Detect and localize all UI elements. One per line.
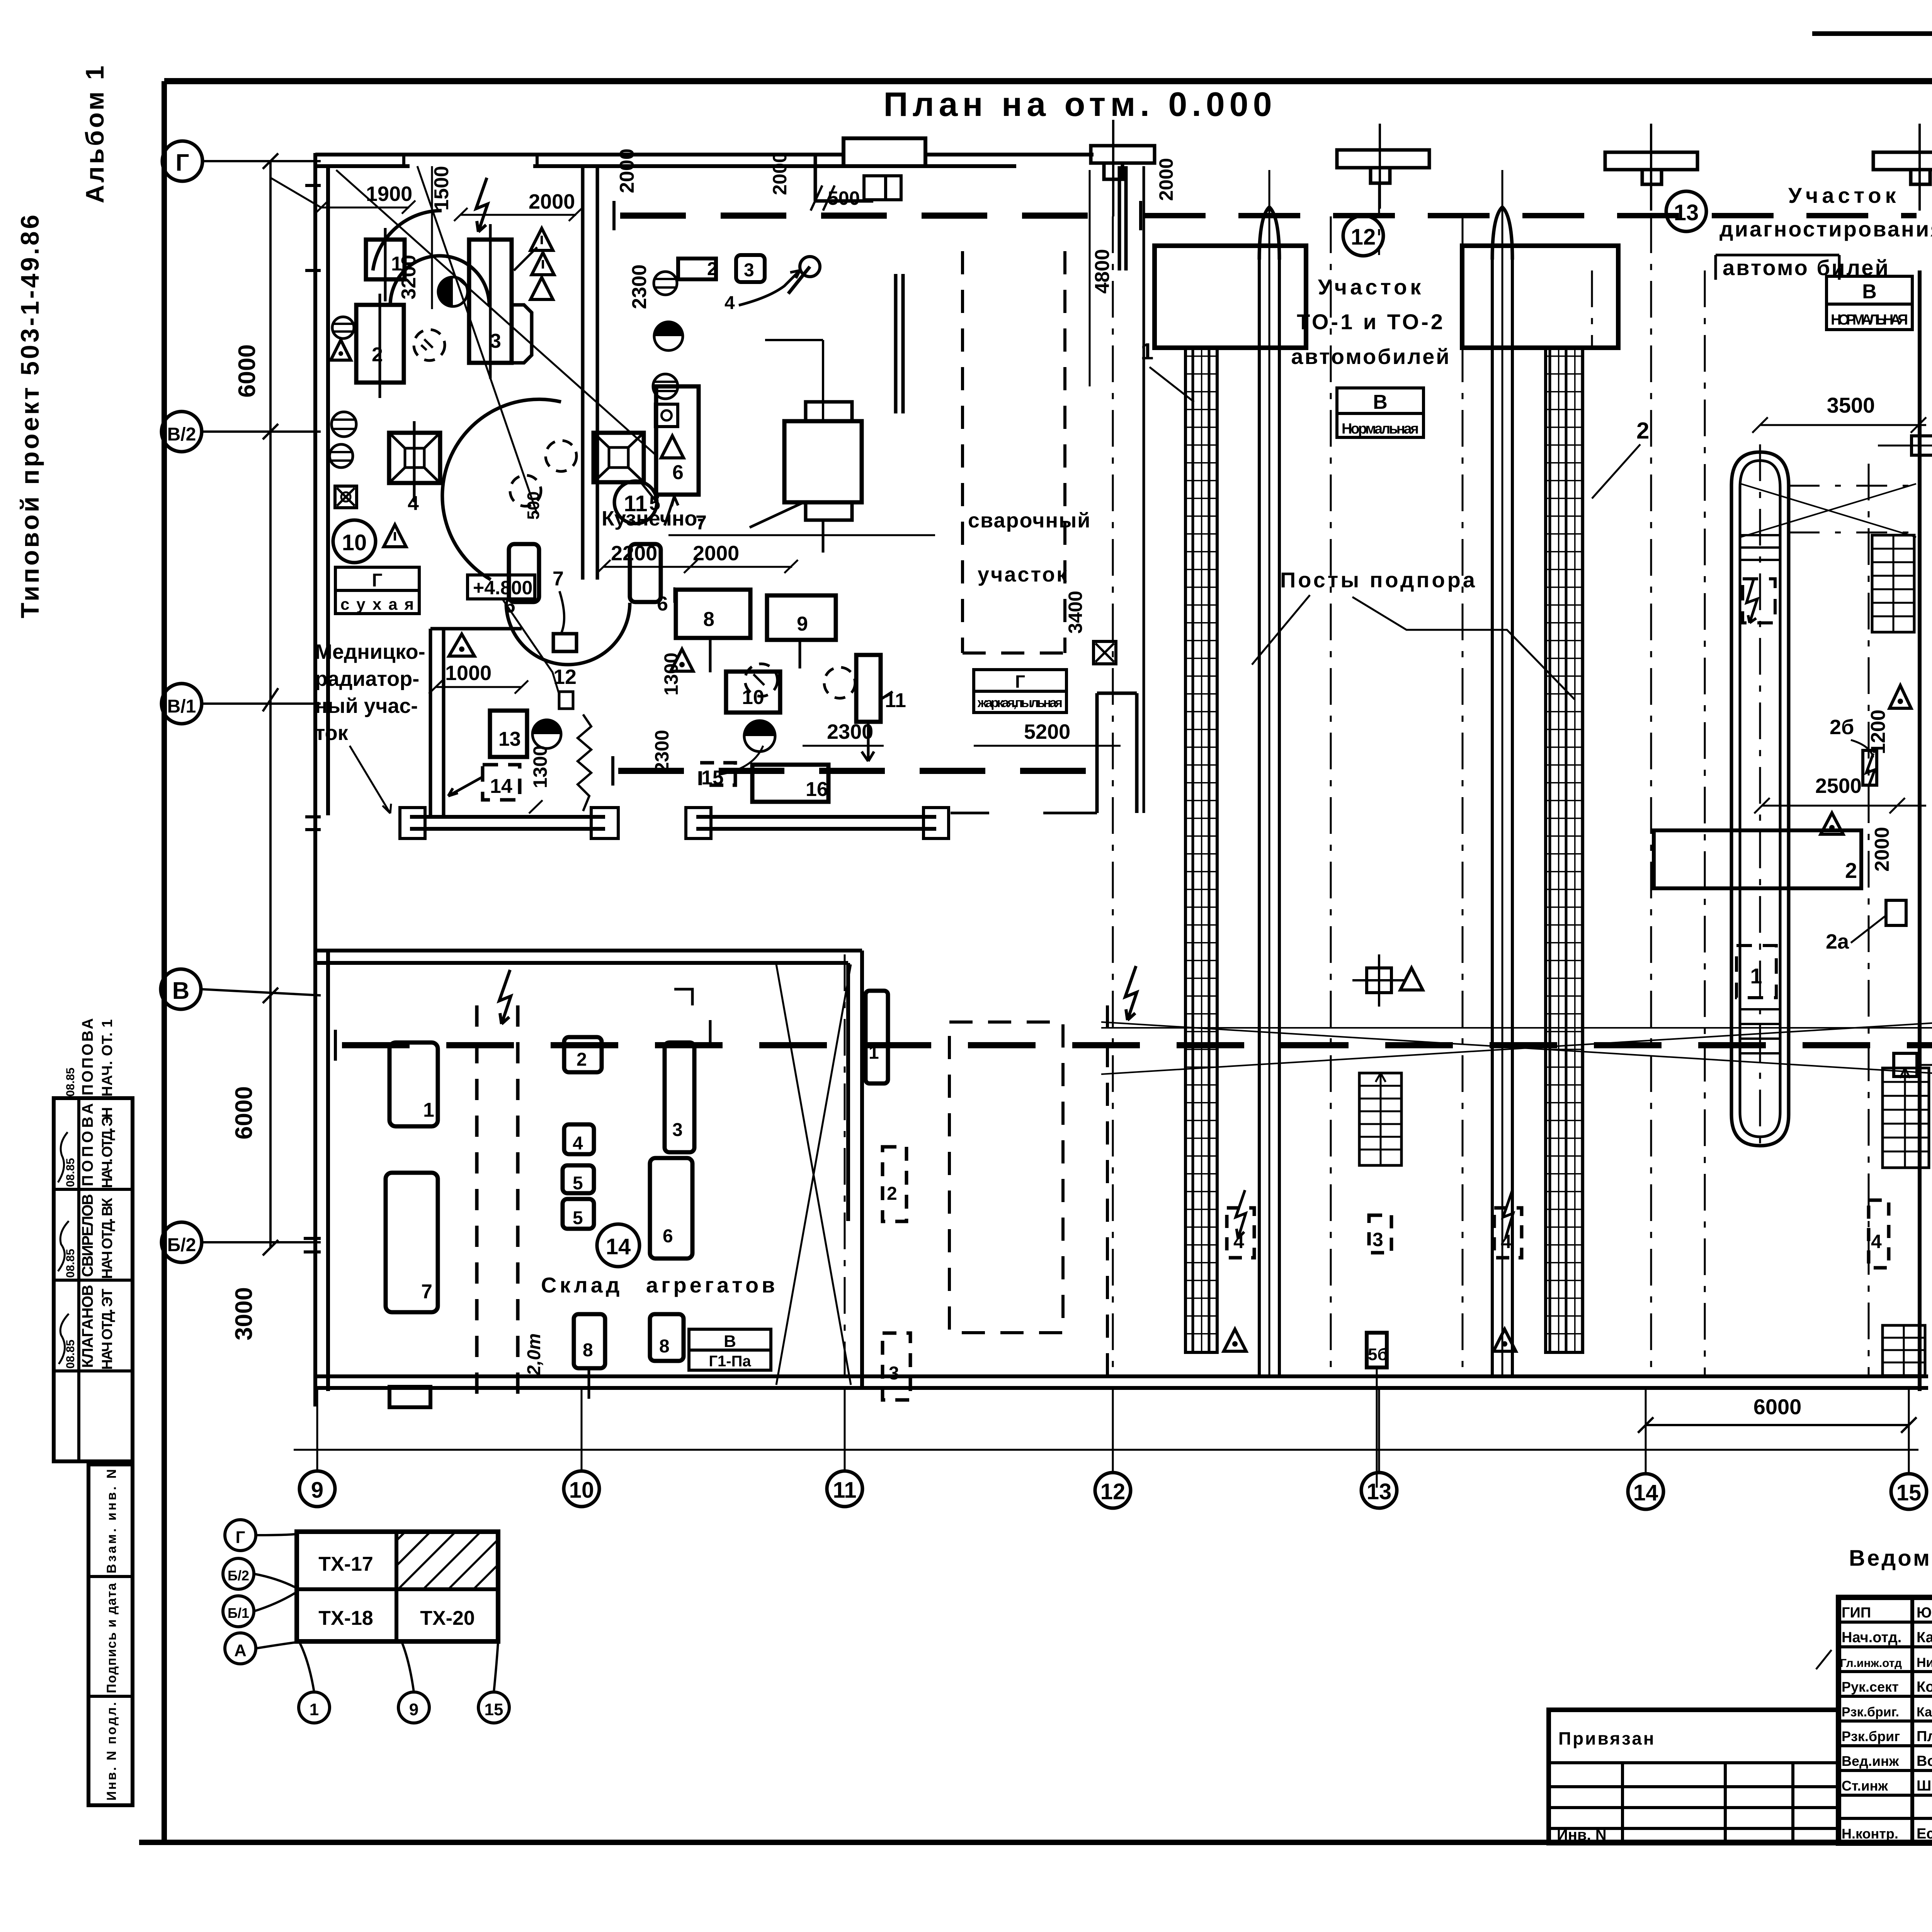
partition wall between rooms x1510 — [583, 166, 597, 580]
svg-text:Нижметдинов: Нижметдинов — [1917, 1655, 1932, 1670]
svg-text:В: В — [1373, 391, 1388, 413]
circle tag 13 — [1666, 191, 1706, 231]
lightning mark top left room — [476, 178, 488, 232]
mid symbols square+triangle — [1352, 954, 1423, 1007]
svg-text:СВИРЕЛОВ: СВИРЕЛОВ — [79, 1194, 96, 1277]
title block signature rows — [1816, 1605, 1932, 1842]
svg-text:8: 8 — [703, 608, 714, 631]
svg-text:6: 6 — [657, 593, 668, 615]
lane 1 top post rectangle — [1155, 246, 1306, 348]
svg-text:15: 15 — [1896, 1480, 1922, 1505]
svg-text:Г1-Па: Г1-Па — [709, 1353, 751, 1370]
circle tag 14 — [597, 1224, 639, 1267]
svg-text:Шварц: Шварц — [1917, 1778, 1932, 1794]
labels 2б 2а dims right side — [1754, 709, 1932, 1101]
svg-text:Рзк.бриг: Рзк.бриг — [1842, 1728, 1900, 1744]
svg-text:4800: 4800 — [1091, 249, 1114, 294]
большой дверной arc bottom — [442, 399, 630, 665]
svg-text:5200: 5200 — [1024, 720, 1070, 743]
svg-text:Воронина: Воронина — [1917, 1753, 1932, 1769]
title block outer — [1838, 1597, 1932, 1843]
svg-text:В: В — [1862, 281, 1877, 303]
text Участок диагностирования автомобилей — [1716, 183, 1932, 280]
lane 2 top post rectangle — [1462, 246, 1618, 348]
dims top-left 1900 1500 3200 2000 — [270, 148, 657, 514]
svg-text:Плахов: Плахов — [1917, 1728, 1932, 1745]
svg-text:2: 2 — [887, 1184, 897, 1204]
item 13 room lower — [490, 711, 527, 757]
equipment 6 right — [630, 544, 668, 615]
door swing arc top-left — [373, 211, 489, 305]
privyazan table — [1549, 1710, 1838, 1844]
svg-text:9: 9 — [797, 613, 808, 635]
T-column axis 13 top — [1337, 124, 1429, 209]
svg-text:5: 5 — [573, 1208, 583, 1228]
svg-text:6000: 6000 — [1753, 1395, 1802, 1419]
svg-text:1: 1 — [423, 1099, 434, 1121]
svg-text:2300: 2300 — [651, 730, 673, 773]
svg-text:13: 13 — [1367, 1479, 1392, 1504]
svg-text:2: 2 — [577, 1049, 587, 1070]
kuznechno equipment 2 3 4 — [654, 255, 820, 313]
text Склад агрегатов — [541, 1273, 778, 1297]
svg-text:ТХ-17: ТХ-17 — [318, 1553, 373, 1575]
svg-text:1500: 1500 — [430, 166, 453, 211]
svg-text:12: 12 — [553, 665, 577, 689]
axis circle В/2 — [162, 412, 321, 452]
dim 4800 rotated + 5200 dim lines — [1065, 170, 1116, 664]
svg-text:2: 2 — [1845, 858, 1857, 883]
lane 2 rail strip with pointed top — [1492, 170, 1512, 1376]
svg-text:Нач.отд.: Нач.отд. — [1842, 1629, 1901, 1646]
left margin rotated signature table — [54, 1018, 133, 1461]
svg-text:9: 9 — [311, 1478, 323, 1503]
warning triangles right of item 3 — [514, 228, 554, 299]
axis circle В — [161, 969, 321, 1009]
svg-text:Н.контр.: Н.контр. — [1842, 1826, 1898, 1842]
cross lines loop to wall — [1741, 484, 1917, 537]
svg-text:Калашников: Калашников — [1917, 1705, 1932, 1719]
svg-text:7: 7 — [696, 512, 707, 534]
svg-text:Типовой проект 503-1-49.86: Типовой проект 503-1-49.86 — [15, 213, 44, 618]
text Медницко-радиаторный участок — [315, 640, 425, 813]
svg-text:10: 10 — [742, 686, 764, 709]
dimension 2000 top dash line — [1141, 158, 1917, 230]
dashed rotation circle 1 — [414, 330, 445, 361]
equipment 7 — [553, 568, 577, 651]
svarochny uchastok dashed box — [963, 251, 1091, 653]
svg-text:ток: ток — [315, 721, 349, 745]
svg-text:11: 11 — [624, 491, 647, 516]
svg-text:Инв. N: Инв. N — [1557, 1827, 1607, 1844]
dashed box with lightning in loop — [1743, 579, 1775, 623]
3500 dimension — [1752, 393, 1926, 433]
svg-text:ТХ-18: ТХ-18 — [318, 1607, 373, 1629]
svg-text:9: 9 — [409, 1700, 418, 1719]
svg-text:2000: 2000 — [1871, 827, 1893, 872]
svg-text:2000: 2000 — [616, 148, 638, 193]
svg-text:участок: участок — [978, 563, 1068, 586]
svg-text:2300: 2300 — [827, 720, 873, 743]
svg-text:2500: 2500 — [1815, 774, 1862, 798]
svg-text:Ведомость оборудования смотри: Ведомость оборудования смотри листы ТХ-1… — [1849, 1546, 1932, 1571]
svg-text:5: 5 — [573, 1173, 583, 1194]
key plan axis circles — [223, 1520, 509, 1723]
svg-text:радиатор-: радиатор- — [315, 667, 419, 690]
svg-text:1300: 1300 — [660, 653, 682, 696]
rotate circle right — [824, 667, 855, 698]
svg-text:2000: 2000 — [1155, 158, 1177, 201]
svg-text:сварочный: сварочный — [968, 509, 1091, 532]
pit leader label 2 — [1592, 418, 1649, 498]
svg-text:Участок: Участок — [1318, 275, 1424, 299]
svg-text:4: 4 — [573, 1133, 583, 1154]
text Участок ТО-1 и ТО-2 автомобилей — [1291, 275, 1451, 369]
Кузнечно room label and dims — [597, 507, 798, 573]
svg-text:жаркая,пыльная: жаркая,пыльная — [977, 696, 1063, 710]
equipment rect 2 — [356, 294, 404, 398]
svg-text:2000: 2000 — [693, 542, 739, 565]
item 14 dashed — [448, 765, 520, 800]
+4.800 elevation box — [468, 575, 560, 696]
svg-text:8: 8 — [659, 1336, 670, 1357]
svg-text:автомобилей: автомобилей — [1291, 344, 1451, 369]
svg-text:Гл.инж.отд: Гл.инж.отд — [1840, 1657, 1902, 1670]
equipment rect 1 — [366, 228, 405, 301]
svg-text:15: 15 — [485, 1700, 503, 1719]
items right of склад 1 2 3 — [866, 991, 910, 1400]
svg-text:+4.800: +4.800 — [473, 577, 532, 599]
svg-text:12: 12 — [1100, 1479, 1126, 1504]
lower-left block walls (склад агрегатов) — [315, 951, 862, 1388]
svg-text:3: 3 — [672, 1120, 683, 1140]
lane area bottom dashed vehicle boxes — [1224, 1190, 1889, 1488]
svg-text:2300: 2300 — [628, 264, 651, 309]
category box В/Нормальная diag lane — [1827, 276, 1912, 330]
valve symbols left column — [330, 317, 356, 468]
svg-text:Б/1: Б/1 — [228, 1605, 249, 1621]
main title: План на отм. 0.000 — [883, 85, 1276, 123]
building bottom wall — [315, 1376, 1928, 1388]
upper rooms bottom wall — [400, 808, 949, 838]
kuznechno items 8 9 — [676, 590, 836, 672]
warning triangle right of 5 — [661, 436, 684, 458]
category box Г/сухая — [335, 567, 419, 614]
svg-text:Г: Г — [372, 570, 382, 591]
svg-text:ТХ-20: ТХ-20 — [420, 1607, 475, 1629]
b/w circle symbol top — [438, 277, 468, 306]
svg-text:Есина: Есина — [1917, 1826, 1932, 1842]
bottom axis circles 9-15 — [294, 1387, 1927, 1509]
b/w circle near 13 — [532, 720, 561, 748]
svg-text:1200: 1200 — [1867, 709, 1889, 754]
svg-text:08.85: 08.85 — [64, 1158, 77, 1187]
equipment rect 3 with chamfer — [469, 224, 532, 379]
svg-text:3000: 3000 — [231, 1287, 257, 1340]
category box В/Г1-Па — [689, 1329, 771, 1370]
lane 2 inspection pit crosshatched — [1546, 348, 1583, 1352]
svg-text:НАЧ. ОТД. ЭН: НАЧ. ОТД. ЭН — [99, 1107, 116, 1188]
lane 1 inspection pit crosshatched — [1185, 348, 1217, 1352]
svg-text:6000: 6000 — [234, 344, 260, 398]
svg-text:1: 1 — [310, 1700, 319, 1719]
svg-text:10: 10 — [342, 530, 367, 555]
svg-text:13: 13 — [498, 728, 521, 750]
circle tag 12 — [1343, 216, 1383, 256]
svg-text:Рзк.бриг.: Рзк.бриг. — [1842, 1705, 1899, 1719]
big dashed room right of склад — [949, 1005, 1107, 1376]
dims 1300 2300 2300 5200 — [651, 535, 1121, 773]
svg-text:2: 2 — [707, 259, 718, 279]
category box В/Нормальная lane1 — [1337, 388, 1423, 437]
svg-text:Рук.сект: Рук.сект — [1842, 1679, 1899, 1695]
circle tag 10 — [333, 520, 376, 563]
axis circle Б/2 — [162, 1222, 321, 1262]
staircase bottom right small — [1883, 1325, 1925, 1376]
svg-text:10: 10 — [569, 1478, 594, 1503]
svg-text:Г: Г — [236, 1528, 245, 1547]
svg-text:Г: Г — [1015, 672, 1025, 692]
svg-text:агрегатов: агрегатов — [646, 1273, 778, 1297]
lightning marks склад — [499, 966, 1137, 1024]
svg-text:1000: 1000 — [445, 662, 492, 685]
equipment rect 5 pyramid — [594, 433, 660, 515]
svg-text:Б/2: Б/2 — [228, 1568, 249, 1583]
svg-text:7: 7 — [553, 568, 564, 590]
svg-text:Вед.инж: Вед.инж — [1842, 1753, 1899, 1769]
svg-text:1: 1 — [1750, 964, 1762, 988]
svg-text:1: 1 — [869, 1043, 879, 1063]
svg-text:Нормальная: Нормальная — [1342, 421, 1419, 437]
axis dash-dot vertical lines — [845, 182, 1869, 1376]
svg-text:2: 2 — [372, 344, 383, 366]
svg-text:6000: 6000 — [231, 1086, 257, 1139]
svg-text:11: 11 — [885, 689, 906, 712]
svg-text:13: 13 — [1674, 200, 1699, 225]
dashed rotation circle 2 — [546, 440, 577, 471]
T-column axis 12 top — [1091, 120, 1155, 216]
svg-text:08.85: 08.85 — [64, 1340, 77, 1369]
svg-text:В/2: В/2 — [167, 424, 196, 445]
left margin rotated album text — [15, 63, 109, 618]
kuznechno bw circle 2 — [744, 721, 775, 752]
svg-text:2а: 2а — [1826, 930, 1849, 953]
svg-text:ГИП: ГИП — [1842, 1605, 1871, 1621]
svg-text:Подпись и дата: Подпись и дата — [104, 1583, 119, 1693]
lane 1 rail strip with pointed top — [1259, 170, 1279, 1376]
svg-text:14: 14 — [606, 1234, 631, 1259]
svg-text:Альбом 1: Альбом 1 — [80, 63, 109, 203]
svg-text:1300: 1300 — [529, 745, 551, 788]
svg-text:ТО-1 и ТО-2: ТО-1 и ТО-2 — [1297, 310, 1445, 334]
partition wall near x2327 — [815, 155, 903, 413]
svg-text:2000: 2000 — [529, 190, 575, 213]
svg-text:08.85: 08.85 — [64, 1249, 77, 1278]
svg-text:Кабанов: Кабанов — [1917, 1629, 1932, 1646]
triangle symbols diag lane — [1821, 685, 1911, 834]
svg-text:Привязан: Привязан — [1558, 1728, 1656, 1748]
svg-text:НАЧ ОТД. ЭТ: НАЧ ОТД. ЭТ — [99, 1289, 116, 1370]
svg-text:В: В — [724, 1332, 736, 1351]
building right wall — [1878, 270, 1932, 1391]
dashed rotation circle 3 — [510, 475, 543, 520]
building left wall axis 9 — [304, 153, 328, 1406]
svg-text:500: 500 — [524, 492, 543, 520]
svg-text:14: 14 — [1633, 1480, 1658, 1505]
svg-text:диагностирования: диагностирования — [1719, 217, 1932, 241]
partition wall x1120 lower — [430, 629, 522, 817]
svg-text:6: 6 — [663, 1226, 673, 1247]
labels 12 1000 1300 — [429, 662, 577, 813]
axis circle Г — [162, 141, 321, 181]
staircase right lower — [1883, 1068, 1929, 1168]
small box symbol left — [335, 486, 357, 508]
equipment rect 4 pyramid — [389, 421, 440, 515]
T-column axis 15 top — [1873, 124, 1932, 211]
warning triangle below 4 — [384, 525, 406, 547]
upper mid wall pieces near lane1 left — [951, 166, 1144, 813]
heavy dashed crane line y1995 — [613, 756, 1121, 786]
heavy dashed line y2705 full width — [335, 1030, 1932, 1061]
svg-text:2200: 2200 — [611, 542, 657, 565]
svg-text:3: 3 — [744, 260, 754, 281]
svg-text:2б: 2б — [1830, 716, 1854, 739]
svg-text:НОРМАЛЬНАЯ: НОРМАЛЬНАЯ — [1831, 312, 1908, 328]
dashed box 1 in loop — [1736, 946, 1776, 998]
svg-text:7: 7 — [421, 1281, 432, 1303]
svg-text:Г: Г — [175, 150, 189, 176]
svg-text:Козлов: Козлов — [1917, 1679, 1932, 1695]
kuznechno item 10 — [449, 634, 780, 713]
svg-text:15: 15 — [701, 767, 724, 789]
circle tag 11 — [614, 481, 657, 524]
text Посты подпора — [1252, 568, 1575, 699]
svg-text:3500: 3500 — [1827, 393, 1875, 417]
svg-text:В/1: В/1 — [167, 696, 196, 717]
svg-text:Участок: Участок — [1788, 183, 1900, 207]
svg-text:3: 3 — [1372, 1229, 1383, 1250]
svg-text:4: 4 — [1871, 1231, 1882, 1252]
staircase right upper — [1872, 535, 1914, 632]
staircase mid lane1 — [1359, 1073, 1401, 1165]
kuznechno equipment 6 vertical — [656, 386, 707, 534]
category box Г/жаркая пыльная — [974, 670, 1066, 713]
svg-text:ный учас-: ный учас- — [315, 694, 418, 718]
svg-text:1: 1 — [391, 253, 402, 275]
left vertical dimension line with 6000/3000 — [231, 153, 278, 1340]
svg-text:НАЧ ОТД. ВК: НАЧ ОТД. ВК — [99, 1197, 116, 1279]
X cross right of склад — [776, 964, 851, 1385]
svg-text:5б: 5б — [1368, 1345, 1388, 1364]
svg-text:16: 16 — [806, 778, 828, 801]
T-column axis 14 top — [1605, 124, 1697, 211]
svg-text:В: В — [172, 978, 190, 1004]
kuznechno equipment 7 big — [750, 340, 862, 553]
svg-text:6: 6 — [672, 461, 684, 484]
axis circle В/1 — [162, 684, 321, 724]
svg-text:11: 11 — [833, 1478, 856, 1503]
svg-text:2: 2 — [1636, 418, 1649, 444]
svg-text:Юрин: Юрин — [1917, 1605, 1932, 1621]
equipment 6 left — [504, 544, 539, 617]
svg-text:Б/2: Б/2 — [167, 1235, 196, 1255]
building top wall axis Г — [315, 138, 1094, 166]
2000 dim dash line upper — [769, 152, 791, 195]
heavy dashed crane line y558 — [614, 201, 1099, 230]
kuznechno items 15 16 11 — [700, 655, 906, 802]
svg-text:Посты подпора: Посты подпора — [1280, 568, 1477, 592]
svg-text:НАЧ. ОТ. 1: НАЧ. ОТ. 1 — [99, 1019, 116, 1097]
dashed rotation circle kuzn — [745, 664, 777, 696]
svg-text:Склад: Склад — [541, 1273, 622, 1297]
left margin inventory strip — [88, 1464, 133, 1805]
svg-text:3: 3 — [889, 1363, 899, 1384]
svg-text:А: А — [234, 1641, 247, 1660]
svg-text:Ст.инж: Ст.инж — [1842, 1778, 1888, 1794]
b/w circle kuznechno — [654, 322, 683, 350]
svg-text:4: 4 — [724, 293, 735, 313]
vedomost heading — [1849, 1546, 1932, 1571]
svg-text:08.85: 08.85 — [64, 1068, 77, 1097]
svg-text:Медницко-: Медницко- — [315, 640, 425, 663]
item 2 rect crossing loop — [1654, 830, 1861, 888]
diagnostics lift loop — [1731, 452, 1789, 1146]
svg-text:2000: 2000 — [769, 152, 791, 195]
zigzag symbol — [578, 714, 591, 811]
sight cross lines around y2700 — [1101, 1022, 1932, 1074]
svg-text:План на отм. 0.000: План на отм. 0.000 — [883, 85, 1276, 123]
svg-text:КЛАГАНОВ: КЛАГАНОВ — [79, 1285, 96, 1368]
svg-text:8: 8 — [583, 1340, 593, 1361]
svg-text:14: 14 — [490, 775, 512, 798]
svg-text:12: 12 — [1351, 224, 1376, 250]
dims 2300 1300 mid-left — [0, 0, 0, 0]
pit leader label 1 — [1141, 338, 1194, 402]
svg-text:2,0т: 2,0т — [524, 1333, 544, 1376]
svg-text:3400: 3400 — [1065, 591, 1086, 634]
500 dim near top wall opening — [811, 176, 901, 211]
key plan grid — [297, 1532, 498, 1641]
small口 symbol right of 3 — [653, 374, 678, 427]
склад агрегатов equipment — [386, 989, 710, 1407]
